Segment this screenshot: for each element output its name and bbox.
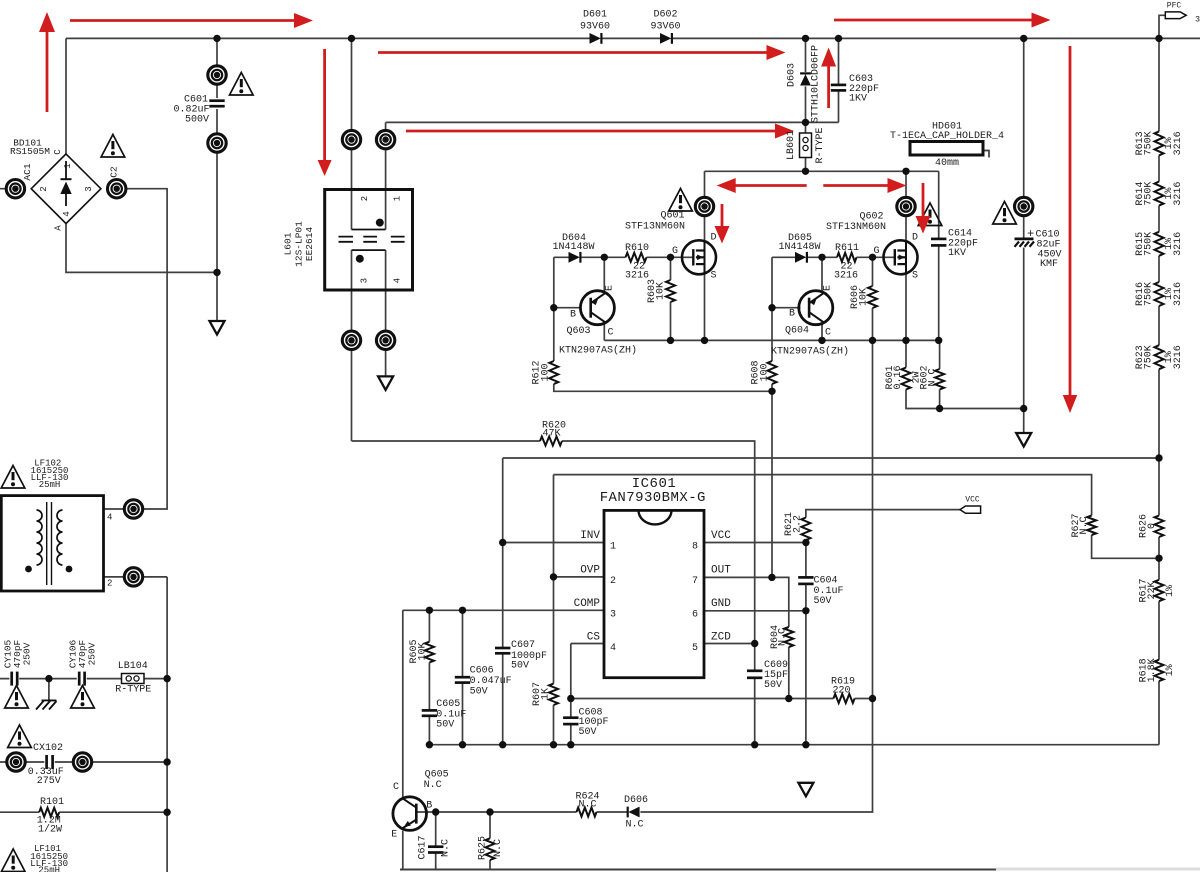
svg-text:3: 3 xyxy=(1195,15,1200,25)
svg-text:2: 2 xyxy=(39,186,49,191)
svg-text:C617: C617 xyxy=(418,835,429,859)
svg-text:1: 1 xyxy=(393,196,403,201)
svg-text:750K: 750K xyxy=(1144,345,1155,369)
svg-text:750K: 750K xyxy=(1144,182,1155,206)
svg-text:ZCD: ZCD xyxy=(711,632,731,644)
svg-text:2: 2 xyxy=(107,579,112,589)
svg-text:0: 0 xyxy=(1147,523,1158,529)
svg-text:3216: 3216 xyxy=(1173,282,1184,306)
svg-text:OVP: OVP xyxy=(580,565,600,577)
svg-text:50V: 50V xyxy=(814,596,832,607)
svg-text:12S-LP01: 12S-LP01 xyxy=(294,221,305,267)
svg-text:STF13NM60N: STF13NM60N xyxy=(625,222,685,233)
svg-text:50V: 50V xyxy=(470,686,488,697)
svg-text:N.C: N.C xyxy=(625,820,643,831)
svg-text:EE2614: EE2614 xyxy=(304,227,315,262)
svg-text:N.C: N.C xyxy=(493,839,504,857)
svg-text:R610: R610 xyxy=(625,243,649,254)
svg-text:3216: 3216 xyxy=(834,271,858,282)
svg-text:3216: 3216 xyxy=(1173,182,1184,206)
svg-text:E: E xyxy=(605,285,616,291)
svg-text:750K: 750K xyxy=(1144,232,1155,256)
svg-text:1%: 1% xyxy=(1165,664,1176,676)
svg-text:C2: C2 xyxy=(108,166,119,178)
svg-text:C: C xyxy=(825,328,831,339)
svg-text:T-1ECA_CAP_HOLDER_4: T-1ECA_CAP_HOLDER_4 xyxy=(890,131,1004,142)
svg-text:N.C: N.C xyxy=(441,839,452,857)
svg-text:25mH: 25mH xyxy=(39,480,61,490)
svg-text:6: 6 xyxy=(692,610,698,621)
svg-text:N.C: N.C xyxy=(1079,516,1090,534)
svg-text:STF13NM60N: STF13NM60N xyxy=(826,222,886,233)
svg-text:47K: 47K xyxy=(542,428,560,439)
svg-text:1/2W: 1/2W xyxy=(38,824,62,836)
svg-text:2: 2 xyxy=(610,576,616,587)
svg-text:C607: C607 xyxy=(511,640,535,651)
svg-text:+: + xyxy=(1027,227,1034,241)
svg-text:D601: D601 xyxy=(583,10,607,21)
svg-text:L601: L601 xyxy=(283,232,294,255)
svg-text:VCC: VCC xyxy=(965,496,980,505)
svg-text:KTN2907AS(ZH): KTN2907AS(ZH) xyxy=(559,345,637,357)
svg-text:E: E xyxy=(391,830,397,841)
svg-text:2.2: 2.2 xyxy=(793,515,804,533)
svg-text:C604: C604 xyxy=(814,576,838,587)
svg-text:R-TYPE: R-TYPE xyxy=(815,127,826,163)
svg-text:4: 4 xyxy=(610,643,616,654)
svg-text:1N4148W: 1N4148W xyxy=(778,242,820,253)
svg-text:S: S xyxy=(711,271,717,282)
svg-text:Q602: Q602 xyxy=(859,212,883,223)
svg-text:INV: INV xyxy=(580,530,600,542)
svg-text:1KV: 1KV xyxy=(849,94,867,105)
svg-text:50V: 50V xyxy=(511,660,529,671)
svg-text:G: G xyxy=(672,246,678,257)
svg-text:1: 1 xyxy=(610,542,616,553)
svg-text:COMP: COMP xyxy=(574,598,601,610)
svg-text:250V: 250V xyxy=(22,642,33,665)
svg-text:100: 100 xyxy=(541,363,552,381)
svg-text:8: 8 xyxy=(692,542,698,553)
svg-text:CX102: CX102 xyxy=(33,743,63,754)
svg-text:CS: CS xyxy=(587,632,601,644)
svg-text:E: E xyxy=(823,285,834,291)
svg-text:22K: 22K xyxy=(1147,581,1158,599)
svg-text:1N4148W: 1N4148W xyxy=(552,242,594,253)
svg-text:1.8K: 1.8K xyxy=(1147,658,1158,682)
svg-text:Q603: Q603 xyxy=(566,326,590,337)
svg-text:500V: 500V xyxy=(185,115,209,126)
svg-text:4: 4 xyxy=(393,278,403,283)
svg-text:3216: 3216 xyxy=(1173,131,1184,155)
svg-text:1KV: 1KV xyxy=(948,248,966,259)
svg-text:KTN2907AS(ZH): KTN2907AS(ZH) xyxy=(771,346,849,358)
svg-text:750K: 750K xyxy=(1144,282,1155,306)
svg-text:1: 1 xyxy=(63,163,73,168)
svg-text:3216: 3216 xyxy=(1173,232,1184,256)
svg-text:100: 100 xyxy=(759,363,770,381)
svg-text:220: 220 xyxy=(832,685,850,696)
svg-text:G: G xyxy=(873,246,879,257)
svg-text:3216: 3216 xyxy=(625,271,649,282)
svg-text:RS1505M: RS1505M xyxy=(10,146,50,157)
svg-text:2: 2 xyxy=(360,196,370,201)
svg-text:B: B xyxy=(789,309,795,320)
svg-text:4: 4 xyxy=(107,513,112,523)
svg-text:1K: 1K xyxy=(540,688,551,700)
svg-text:10K: 10K xyxy=(656,282,667,300)
svg-text:Q604: Q604 xyxy=(785,326,809,337)
svg-text:93V60: 93V60 xyxy=(580,22,610,33)
svg-text:3: 3 xyxy=(359,278,369,283)
svg-text:B: B xyxy=(570,310,576,321)
svg-text:D606: D606 xyxy=(624,795,648,806)
svg-text:R-TYPE: R-TYPE xyxy=(115,685,151,696)
svg-text:N.C: N.C xyxy=(928,368,939,386)
svg-text:3: 3 xyxy=(610,610,616,621)
svg-text:5: 5 xyxy=(692,643,698,654)
svg-text:10K: 10K xyxy=(859,288,870,306)
svg-text:50V: 50V xyxy=(436,720,454,731)
svg-text:PFC: PFC xyxy=(1167,1,1182,10)
svg-text:AC1: AC1 xyxy=(22,163,33,180)
svg-text:250V: 250V xyxy=(87,642,98,665)
svg-text:25mH: 25mH xyxy=(38,866,60,872)
svg-text:3216: 3216 xyxy=(1173,345,1184,369)
svg-text:FAN7930BMX-G: FAN7930BMX-G xyxy=(600,490,706,506)
svg-text:D: D xyxy=(912,233,918,244)
svg-text:D602: D602 xyxy=(653,10,677,21)
svg-text:VCC: VCC xyxy=(711,530,731,542)
svg-text:3: 3 xyxy=(84,186,94,191)
svg-text:4: 4 xyxy=(62,211,72,216)
svg-text:LB104: LB104 xyxy=(118,661,148,672)
svg-text:B: B xyxy=(426,801,432,812)
svg-text:7: 7 xyxy=(692,576,698,587)
svg-text:10K: 10K xyxy=(418,642,429,660)
svg-text:C: C xyxy=(607,328,613,339)
svg-text:N.C: N.C xyxy=(424,780,442,791)
svg-text:D: D xyxy=(711,233,717,244)
svg-text:Q601: Q601 xyxy=(660,211,684,222)
svg-text:0.16: 0.16 xyxy=(893,365,904,389)
svg-text:C: C xyxy=(393,782,399,793)
svg-text:D603: D603 xyxy=(787,63,798,87)
svg-text:LB601: LB601 xyxy=(786,130,797,160)
svg-text:C: C xyxy=(53,149,63,155)
svg-text:R625: R625 xyxy=(478,836,489,860)
svg-text:N.C: N.C xyxy=(578,799,596,810)
svg-text:275V: 275V xyxy=(37,776,61,787)
svg-text:C606: C606 xyxy=(470,665,494,676)
svg-text:N.C: N.C xyxy=(778,628,789,646)
svg-text:750K: 750K xyxy=(1144,131,1155,155)
svg-text:OUT: OUT xyxy=(711,565,731,577)
svg-text:A: A xyxy=(54,225,64,231)
svg-text:R101: R101 xyxy=(40,797,64,808)
svg-text:0.047uF: 0.047uF xyxy=(470,676,512,687)
svg-text:93V60: 93V60 xyxy=(650,22,680,33)
svg-text:S: S xyxy=(912,271,918,282)
svg-text:50V: 50V xyxy=(579,727,597,738)
svg-text:Q605: Q605 xyxy=(425,770,449,781)
svg-text:50V: 50V xyxy=(764,680,782,691)
svg-text:GND: GND xyxy=(711,598,731,610)
svg-text:KMF: KMF xyxy=(1040,259,1058,270)
svg-text:40mm: 40mm xyxy=(935,158,959,169)
svg-text:1%: 1% xyxy=(1165,585,1176,597)
svg-text:STTH10LCD06FP: STTH10LCD06FP xyxy=(811,45,822,123)
svg-text:R611: R611 xyxy=(835,243,859,254)
